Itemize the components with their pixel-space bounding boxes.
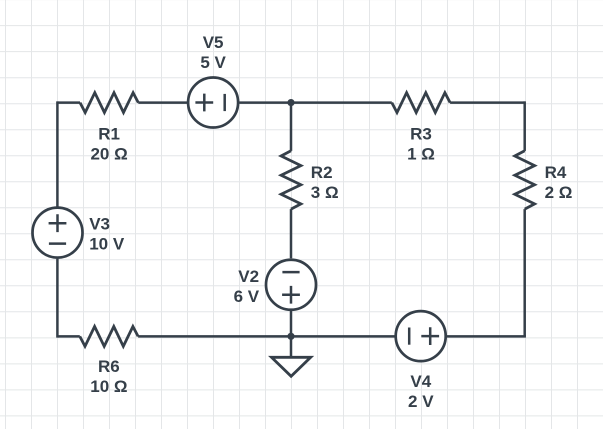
wire left rail lower xyxy=(56,259,59,338)
wire V4 to bottom-right corner xyxy=(447,335,526,338)
resistor R4 xyxy=(515,151,535,209)
resistor R2 xyxy=(281,151,301,209)
wire R2 to V2 xyxy=(290,209,293,258)
resistor R3 xyxy=(392,93,450,113)
svg-text:2 V: 2 V xyxy=(408,392,434,411)
svg-text:3 Ω: 3 Ω xyxy=(311,183,339,202)
wire right rail upper xyxy=(523,101,526,151)
svg-text:R4: R4 xyxy=(545,163,567,182)
wire top-left horizontal segment xyxy=(57,101,80,104)
svg-text:10 V: 10 V xyxy=(89,235,125,254)
ground stub wire xyxy=(290,336,293,356)
voltage source V2 xyxy=(266,260,316,310)
wire left rail upper xyxy=(56,101,59,206)
voltage source V4 xyxy=(396,311,446,361)
wire middle rail upper xyxy=(290,103,293,151)
wire node A to R3 xyxy=(291,101,392,104)
svg-text:R2: R2 xyxy=(311,163,333,182)
wire right rail lower xyxy=(523,209,526,336)
svg-text:V3: V3 xyxy=(89,215,110,234)
svg-text:R1: R1 xyxy=(98,125,120,144)
wire V5 to node A xyxy=(239,101,291,104)
svg-text:2 Ω: 2 Ω xyxy=(545,183,573,202)
svg-text:R6: R6 xyxy=(98,357,120,376)
resistor R6 xyxy=(80,327,138,347)
wire R1 to V5 xyxy=(138,101,187,104)
svg-text:V2: V2 xyxy=(238,267,259,286)
node B junction dot xyxy=(287,333,294,340)
svg-text:1 Ω: 1 Ω xyxy=(407,145,435,164)
svg-text:V5: V5 xyxy=(203,33,224,52)
wire R3 to top-right corner xyxy=(450,101,525,104)
svg-text:R3: R3 xyxy=(410,125,432,144)
svg-text:6 V: 6 V xyxy=(234,287,260,306)
svg-text:20 Ω: 20 Ω xyxy=(90,145,127,164)
resistor R1 xyxy=(80,93,138,113)
svg-text:5 V: 5 V xyxy=(200,53,226,72)
voltage source V5 xyxy=(188,78,238,128)
wire V2 to node B xyxy=(290,311,293,337)
wire bottom-left horizontal segment xyxy=(57,335,79,338)
voltage source V3 xyxy=(33,208,83,258)
wire node B to V4 xyxy=(291,335,395,338)
wire R6 to node B xyxy=(138,335,291,338)
svg-text:V4: V4 xyxy=(410,372,431,391)
svg-text:10 Ω: 10 Ω xyxy=(90,377,127,396)
ground symbol xyxy=(272,357,311,376)
node A junction dot xyxy=(287,99,294,106)
